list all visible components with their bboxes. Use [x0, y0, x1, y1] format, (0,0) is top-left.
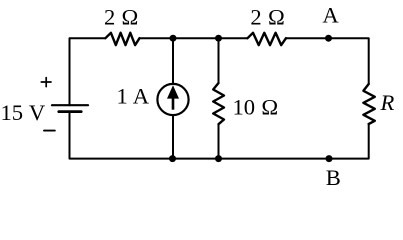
- svg-text:B: B: [326, 165, 341, 190]
- svg-text:1 A: 1 A: [117, 84, 150, 109]
- svg-text:A: A: [322, 2, 339, 27]
- svg-text:R: R: [380, 90, 395, 115]
- svg-text:10 Ω: 10 Ω: [233, 94, 279, 119]
- svg-text:2 Ω: 2 Ω: [104, 4, 138, 29]
- svg-text:15 V: 15 V: [1, 100, 46, 125]
- svg-text:2 Ω: 2 Ω: [250, 4, 284, 29]
